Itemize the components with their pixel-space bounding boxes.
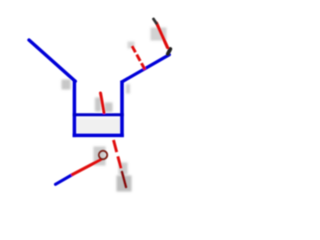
wire: blue bond B5 bottom horizontal xyxy=(73,134,124,138)
wire: blue bond B6 upper-right diagonal xyxy=(122,55,169,82)
wire: red hashed bond R2 (three dashes) xyxy=(132,46,146,72)
node: dark cap above R1 xyxy=(154,19,157,24)
wire: dark red tail R6 bottom-right xyxy=(122,172,126,187)
node V1: dark junction top-right xyxy=(168,49,171,54)
wire: blue bond B3 right vertical xyxy=(120,81,124,138)
wire: red bond R5 bottom-left diagonal xyxy=(73,160,102,175)
smudge right of R4 lower xyxy=(119,163,128,175)
smudge blob bottom-right end xyxy=(117,176,132,192)
wire: blue bond B1 top-left diagonal xyxy=(29,40,75,81)
ghost right of B3 top xyxy=(126,84,130,94)
wire: red bond R3 center vertical xyxy=(101,93,105,113)
atom O bottom smudge ring xyxy=(99,151,107,159)
smudge top-right area xyxy=(151,28,167,41)
wire: red bond R4 below ring xyxy=(114,140,123,172)
smudge below O bottom left xyxy=(94,147,106,166)
smudge left of B2 top xyxy=(62,80,71,90)
smudge at top of R2 dashes xyxy=(128,42,135,49)
wire: blue bond B7 bottom-left short diagonal xyxy=(56,175,73,185)
wire: red bond R1 to top-right xyxy=(157,23,168,48)
wire: blue bond B2 left vertical xyxy=(73,80,77,138)
smudge left of R3 xyxy=(95,98,101,112)
smudge right of R3 xyxy=(105,103,113,113)
shade inside ring xyxy=(77,118,121,134)
wire: blue bond B4 middle horizontal xyxy=(73,113,124,116)
